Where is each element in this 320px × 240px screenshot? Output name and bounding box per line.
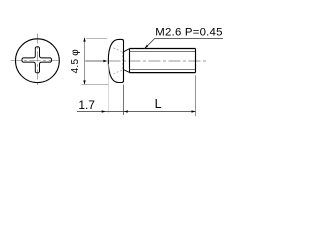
side view: pan head dome outline <box>108 39 123 82</box>
front view: screw head outline circle <box>16 39 60 83</box>
front view: phillips cross recess <box>22 47 52 73</box>
4.5 dia dimension: vertical dimension line <box>84 38 86 84</box>
side view: shank end vertical line <box>195 49 197 73</box>
1.7 dimension left arrowhead (pointing right) <box>102 110 106 112</box>
side view: axis dimension segment to head apex <box>85 60 103 62</box>
svg-text:1.7: 1.7 <box>78 98 95 112</box>
side view: center line through shank <box>109 60 209 62</box>
dimension extension line at head face <box>123 85 125 116</box>
dimension extension line at head apex <box>108 64 110 113</box>
4.5 dia dimension: bottom extension line <box>82 84 109 86</box>
side view: thread runout upper diagonal <box>124 49 130 52</box>
front view: vertical center line <box>36 34 38 88</box>
4.5 dia dimension: bottom arrowhead <box>83 80 85 84</box>
front view: horizontal center line <box>11 60 63 62</box>
side view: arrowhead at head apex <box>103 60 107 62</box>
side view: thread root bottom line <box>130 68 196 70</box>
shared arrowhead at head face (pointing left) <box>124 110 128 112</box>
side view: hidden recess lower cone line <box>113 70 122 74</box>
leader arrowhead <box>144 45 148 49</box>
side view: thread root top line <box>130 51 196 53</box>
svg-text:M2.6 P=0.45: M2.6 P=0.45 <box>155 27 222 39</box>
side view: hidden recess vertical dashed line <box>121 52 123 71</box>
side view: shank top outer diameter line <box>130 48 196 50</box>
svg-text:4.5 φ: 4.5 φ <box>70 49 81 74</box>
side view: head bearing face line <box>123 41 125 81</box>
4.5 dia dimension: top arrowhead <box>83 37 85 41</box>
L dimension right arrowhead (pointing right) <box>192 110 196 112</box>
side view: shank bottom outer diameter line <box>130 72 196 74</box>
side view: thread runout lower diagonal <box>124 70 130 73</box>
side view: hidden recess upper cone line <box>113 48 122 52</box>
side view: thread start vertical line <box>129 49 131 73</box>
L dimension line <box>124 111 196 113</box>
4.5 dia dimension: top extension line <box>86 38 107 40</box>
svg-text:L: L <box>155 97 162 111</box>
1.7 dimension line <box>77 111 124 113</box>
dimension extension line at screw tip <box>195 75 197 116</box>
leader line for thread label <box>144 39 223 49</box>
